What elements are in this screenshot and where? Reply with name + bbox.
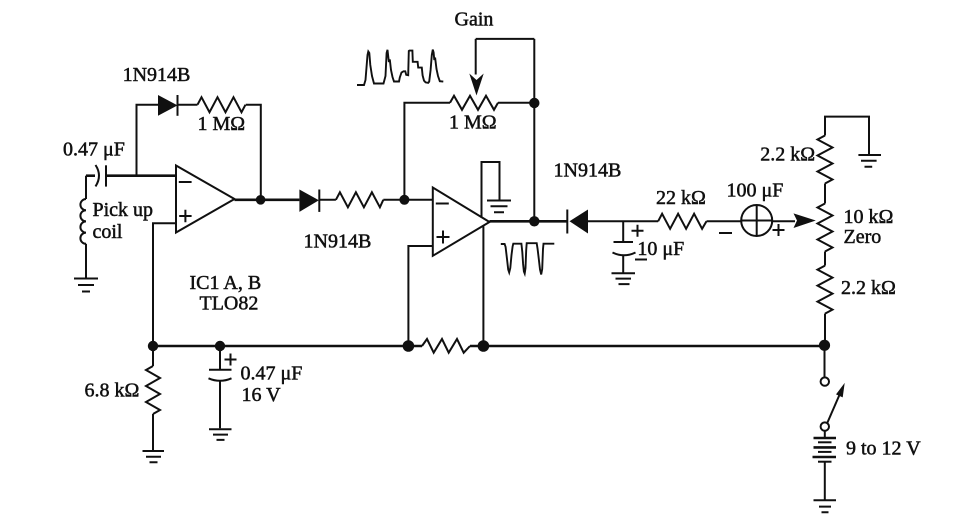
svg-text:6.8 kΩ: 6.8 kΩ <box>85 380 140 402</box>
svg-text:1 MΩ: 1 MΩ <box>449 112 497 134</box>
svg-text:1 MΩ: 1 MΩ <box>198 113 246 135</box>
svg-text:Gain: Gain <box>455 9 494 31</box>
svg-text:0.47 μF: 0.47 μF <box>241 363 303 385</box>
svg-text:1N914B: 1N914B <box>123 64 191 86</box>
svg-text:10 μF: 10 μF <box>637 238 684 260</box>
svg-text:coil: coil <box>93 221 123 243</box>
svg-text:0.47 μF: 0.47 μF <box>63 139 125 161</box>
svg-text:2.2 kΩ: 2.2 kΩ <box>760 143 815 165</box>
svg-text:100 μF: 100 μF <box>727 180 784 202</box>
svg-text:10 kΩ: 10 kΩ <box>844 206 894 228</box>
svg-text:2.2 kΩ: 2.2 kΩ <box>841 277 896 299</box>
svg-text:1N914B: 1N914B <box>554 159 622 181</box>
svg-text:1N914B: 1N914B <box>304 231 372 253</box>
svg-text:22 kΩ: 22 kΩ <box>656 187 706 209</box>
svg-text:16 V: 16 V <box>242 384 282 406</box>
svg-text:9 to 12 V: 9 to 12 V <box>846 438 921 460</box>
svg-text:TLO82: TLO82 <box>200 293 259 315</box>
svg-text:Pick up: Pick up <box>93 199 154 221</box>
svg-text:IC1 A, B: IC1 A, B <box>190 272 262 294</box>
svg-text:Zero: Zero <box>844 226 882 248</box>
